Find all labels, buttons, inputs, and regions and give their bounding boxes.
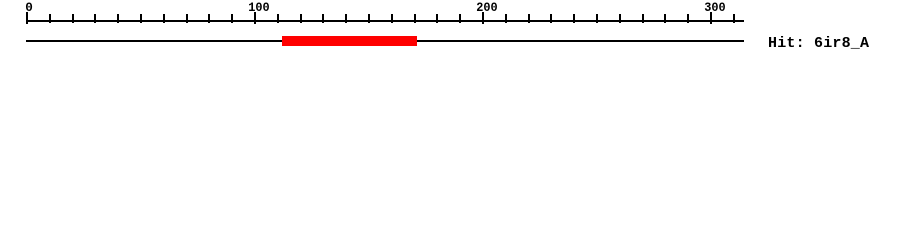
minor tick 290 xyxy=(687,14,689,23)
minor tick 240 xyxy=(573,14,575,23)
svg-text:300: 300 xyxy=(704,0,726,15)
major tick 0 xyxy=(26,12,28,24)
minor tick 160 xyxy=(391,14,393,23)
minor tick 310 xyxy=(733,14,735,23)
major tick 300 xyxy=(710,12,712,24)
minor tick 50 xyxy=(140,14,142,23)
query line left segment xyxy=(26,40,282,42)
minor tick 10 xyxy=(49,14,51,23)
svg-text:Hit: 6ir8_A: Hit: 6ir8_A xyxy=(768,35,869,52)
hit region red bar xyxy=(282,36,417,46)
minor tick 60 xyxy=(163,14,165,23)
minor tick 80 xyxy=(208,14,210,23)
minor tick 180 xyxy=(436,14,438,23)
minor tick 210 xyxy=(505,14,507,23)
minor tick 150 xyxy=(368,14,370,23)
minor tick 280 xyxy=(664,14,666,23)
minor tick 270 xyxy=(642,14,644,23)
minor tick 190 xyxy=(459,14,461,23)
minor tick 140 xyxy=(345,14,347,23)
minor tick 170 xyxy=(414,14,416,23)
major tick 100 xyxy=(254,12,256,24)
minor tick 20 xyxy=(72,14,74,23)
minor tick 220 xyxy=(528,14,530,23)
major tick 200 xyxy=(482,12,484,24)
minor tick 40 xyxy=(117,14,119,23)
minor tick 70 xyxy=(186,14,188,23)
query line right segment xyxy=(417,40,744,42)
minor tick 230 xyxy=(550,14,552,23)
minor tick 250 xyxy=(596,14,598,23)
minor tick 260 xyxy=(619,14,621,23)
svg-text:200: 200 xyxy=(476,0,498,15)
minor tick 30 xyxy=(94,14,96,23)
svg-text:0: 0 xyxy=(25,0,33,15)
svg-text:100: 100 xyxy=(248,0,270,15)
ruler axis line xyxy=(26,20,744,22)
minor tick 120 xyxy=(300,14,302,23)
minor tick 90 xyxy=(231,14,233,23)
minor tick 130 xyxy=(322,14,324,23)
minor tick 110 xyxy=(277,14,279,23)
